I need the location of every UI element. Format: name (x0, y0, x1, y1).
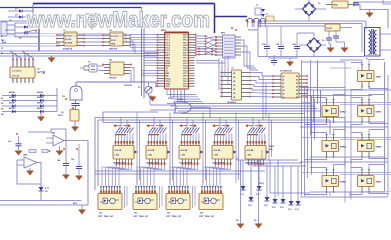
svg-text:c 595: c 595 (148, 155, 153, 157)
svg-text:X2 IO: X2 IO (111, 40, 116, 42)
svg-text:D0: D0 (296, 76, 298, 78)
svg-text:SSR3: SSR3 (376, 112, 382, 114)
svg-text:P0.4: P0.4 (183, 85, 188, 88)
svg-text:Q0: Q0 (282, 76, 284, 78)
svg-text:IN4148: IN4148 (9, 107, 15, 110)
svg-text:K3: K3 (1, 109, 3, 111)
svg-text:SSR5: SSR5 (376, 147, 382, 149)
svg-text:104: 104 (276, 43, 279, 46)
svg-text:OPT_T800_OP: OPT_T800_OP (199, 216, 215, 218)
svg-text:D3: D3 (254, 220, 256, 222)
svg-text:D6: D6 (322, 40, 324, 42)
svg-text:DS1302: DS1302 (109, 78, 117, 80)
svg-text:A 1A 2B: A 1A 2B (115, 149, 122, 152)
svg-text:GND: GND (111, 44, 116, 46)
svg-text:SSR4: SSR4 (340, 146, 346, 149)
svg-text:IN4148: IN4148 (37, 107, 43, 110)
svg-text:P0.4: P0.4 (183, 44, 188, 47)
svg-text:7 8 9 10: 7 8 9 10 (12, 76, 20, 78)
svg-text:www.newMaker.com: www.newMaker.com (26, 7, 210, 32)
svg-text:C8 C9 C10: C8 C9 C10 (248, 30, 257, 32)
svg-text:P0.4: P0.4 (183, 64, 188, 67)
svg-text:c 595: c 595 (181, 155, 186, 157)
svg-text:U15: U15 (167, 213, 170, 215)
svg-text:K1: K1 (1, 98, 3, 100)
svg-text:A 1A 2B: A 1A 2B (148, 149, 155, 152)
svg-text:P1: P1 (1, 53, 3, 55)
svg-text:SSR6: SSR6 (340, 182, 346, 184)
svg-text:A 1A 2B: A 1A 2B (181, 149, 188, 152)
svg-text:P1.4: P1.4 (165, 44, 170, 47)
svg-text:A 1A 2B: A 1A 2B (214, 149, 221, 152)
svg-text:P1: P1 (1, 40, 3, 42)
svg-text:U5A: U5A (51, 132, 56, 135)
svg-text:VCC: VCC (165, 86, 170, 88)
svg-text:470u: 470u (262, 43, 266, 46)
svg-text:TL431: TL431 (326, 27, 333, 30)
svg-text:IN4148: IN4148 (9, 91, 15, 94)
svg-text:ULN2003: ULN2003 (227, 102, 237, 104)
svg-text:1 2 3 4 5 6: 1 2 3 4 5 6 (12, 70, 22, 73)
svg-text:D5: D5 (296, 94, 298, 96)
svg-text:SSR7: SSR7 (376, 182, 382, 184)
svg-text:U16: U16 (200, 213, 203, 215)
svg-text:OPT_T800_OP: OPT_T800_OP (98, 216, 114, 218)
svg-text:OUT1: OUT1 (259, 183, 264, 185)
svg-text:Q5: Q5 (282, 94, 284, 96)
svg-text:C2: C2 (5, 30, 7, 32)
svg-text:74HC: 74HC (269, 145, 275, 148)
svg-text:K2: K2 (1, 103, 3, 105)
svg-text:SSR1: SSR1 (376, 77, 382, 79)
svg-text:Q6: Q6 (282, 97, 284, 99)
svg-text:X1 VCC: X1 VCC (111, 36, 118, 38)
svg-text:74HC: 74HC (178, 98, 184, 101)
svg-text:D1: D1 (296, 80, 298, 82)
svg-text:Q1: Q1 (282, 80, 284, 82)
svg-text:Q4: Q4 (282, 89, 284, 92)
svg-text:U13: U13 (99, 213, 102, 215)
svg-text:XTAL: XTAL (168, 97, 174, 100)
svg-text:D2: D2 (236, 220, 238, 222)
svg-text:IN4148: IN4148 (9, 96, 15, 99)
svg-text:IN4148: IN4148 (37, 91, 43, 94)
svg-text:A1 SCL: A1 SCL (65, 38, 73, 41)
svg-text:A 1A 2B: A 1A 2B (247, 149, 254, 152)
svg-text:FM: FM (62, 96, 65, 98)
svg-text:SSR2: SSR2 (340, 112, 346, 114)
svg-text:Q2: Q2 (282, 83, 284, 85)
svg-text:U6: U6 (231, 68, 233, 70)
svg-text:AT24C02: AT24C02 (63, 48, 73, 51)
svg-text:OPT_T800_OP: OPT_T800_OP (166, 216, 182, 218)
svg-text:c 595: c 595 (115, 155, 120, 157)
svg-text:P1: P1 (1, 36, 3, 38)
svg-text:D6: D6 (296, 97, 298, 99)
svg-text:CLKOUT: CLKOUT (124, 85, 133, 87)
svg-text:IN4148: IN4148 (37, 102, 43, 105)
svg-text:DS1302: DS1302 (109, 49, 118, 51)
svg-text:Q5: Q5 (19, 38, 22, 40)
svg-text:100u: 100u (292, 44, 296, 46)
svg-text:D5: D5 (318, 3, 320, 5)
svg-text:c 595: c 595 (247, 155, 252, 157)
svg-text:U14: U14 (134, 212, 137, 215)
svg-text:U5B: U5B (23, 155, 28, 157)
svg-text:D3: D3 (296, 87, 298, 89)
svg-text:IN4148: IN4148 (37, 96, 43, 99)
svg-text:L1: L1 (266, 14, 268, 16)
svg-text:Q3: Q3 (282, 87, 284, 89)
svg-text:P1: P1 (1, 48, 3, 50)
svg-text:F1: F1 (256, 5, 258, 7)
svg-text:IN4148: IN4148 (9, 102, 15, 105)
svg-text:D2: D2 (296, 83, 298, 85)
svg-text:OPT_T800_OP: OPT_T800_OP (133, 216, 149, 218)
svg-text:c 595: c 595 (214, 155, 219, 157)
svg-text:U7 74HC164: U7 74HC164 (280, 70, 292, 73)
svg-text:D4: D4 (296, 89, 298, 92)
svg-text:A2 SDA: A2 SDA (65, 42, 73, 45)
